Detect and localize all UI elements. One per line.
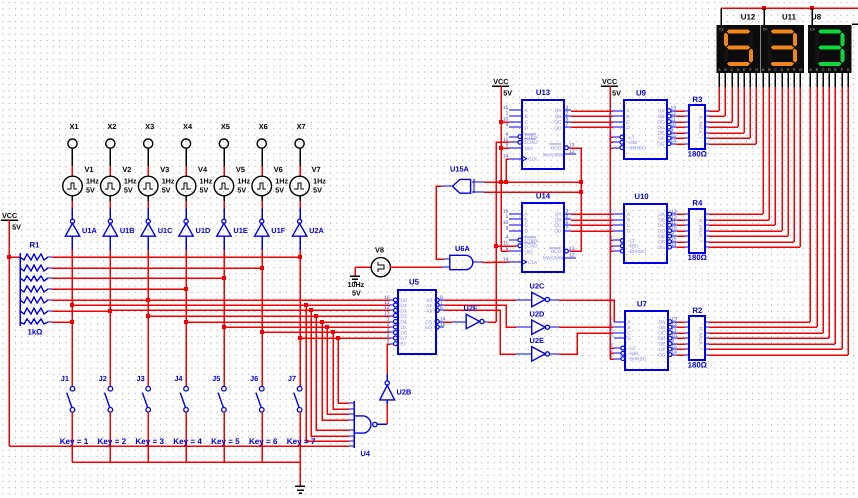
indicator X1 [68, 139, 77, 148]
svg-text:E: E [834, 68, 837, 72]
wire [147, 201, 149, 208]
wire U5 GS to U2F [444, 321, 466, 323]
wire U8 display pins down [810, 73, 848, 355]
svg-text:U2D: U2D [530, 309, 545, 318]
wire [185, 201, 187, 208]
label X1 [69, 122, 78, 131]
label R1 value 1k&#937; [28, 328, 43, 337]
wire U13 outputs to U9 inputs [571, 111, 613, 127]
svg-text:QA: QA [555, 108, 563, 114]
wire [71, 412, 73, 462]
svg-text:OA: OA [658, 109, 666, 115]
svg-text:C: C [774, 68, 777, 72]
svg-text:CLK: CLK [528, 157, 538, 163]
ic U10 body [624, 204, 667, 263]
svg-text:OG: OG [658, 245, 666, 251]
label Key5 [211, 437, 240, 446]
wire [147, 412, 149, 462]
svg-text:5V: 5V [275, 186, 284, 195]
wire VCC rail U13 [499, 86, 509, 251]
wire resistor pack to U8 [709, 322, 848, 355]
svg-text:V5: V5 [236, 165, 245, 174]
wire [223, 208, 225, 219]
svg-text:7: 7 [566, 122, 569, 128]
wire column down to switch [299, 250, 301, 386]
svg-text:U1C: U1C [158, 226, 173, 235]
svg-text:R4: R4 [692, 199, 703, 208]
label U1A [82, 226, 97, 235]
ic U5 left pins [384, 295, 407, 348]
wire branch down to U4 input [336, 336, 349, 403]
wire R1 row 7 to column 1 [52, 321, 72, 323]
wire [109, 208, 111, 219]
svg-text:~BI/RBO: ~BI/RBO [627, 146, 646, 152]
wire [261, 236, 263, 250]
svg-text:~BI/RBO: ~BI/RBO [627, 249, 646, 255]
wire bus line D7 to U5 [298, 336, 390, 340]
label X7 [297, 122, 306, 131]
svg-text:OA: OA [658, 320, 666, 326]
label V4 [198, 165, 208, 174]
svg-text:OE: OE [658, 342, 665, 348]
inverter U2B [380, 381, 395, 400]
svg-text:Key = 6: Key = 6 [249, 437, 278, 446]
wire R1 row 4 to column 4 [52, 288, 186, 290]
wire branch down to U4 input [325, 325, 349, 414]
svg-text:C: C [525, 223, 529, 229]
wire [261, 166, 263, 176]
svg-text:X6: X6 [259, 122, 268, 131]
svg-text:~LT: ~LT [627, 346, 635, 352]
buffer U1D [179, 219, 193, 236]
svg-text:1Hz: 1Hz [313, 177, 326, 186]
wire switch ground bus [72, 461, 300, 463]
label R2 value [688, 361, 707, 370]
svg-text:A: A [718, 68, 721, 72]
wire [223, 148, 225, 166]
svg-text:X7: X7 [297, 122, 306, 131]
ground (switch bus) [295, 486, 305, 493]
wire U15A input 2 line [484, 190, 583, 194]
wire R1 row 6 to column 2 [52, 310, 110, 312]
svg-text:~RBI: ~RBI [627, 244, 638, 250]
indicator X2 [106, 139, 115, 148]
label V2 [122, 165, 131, 174]
wire [223, 166, 225, 176]
svg-text:U5: U5 [409, 278, 420, 287]
svg-text:D6: D6 [401, 330, 407, 336]
ic U7 right pins [658, 316, 677, 358]
label X2 [107, 122, 116, 131]
svg-text:U11: U11 [782, 13, 797, 22]
svg-text:QA: QA [555, 212, 563, 218]
label Key7 [287, 437, 316, 446]
wire [223, 412, 225, 462]
svg-text:U2C: U2C [530, 282, 545, 291]
svg-text:~RBI: ~RBI [627, 140, 638, 146]
svg-text:D4: D4 [401, 319, 407, 325]
wire R1 row 5 to column 3 [52, 299, 148, 301]
wire [261, 148, 263, 166]
svg-text:U2E: U2E [530, 336, 544, 345]
wire bus line D2 to U5 [110, 309, 390, 311]
label J4 [174, 374, 183, 383]
display U8 [808, 25, 852, 73]
svg-text:OC: OC [658, 331, 666, 337]
svg-text:Key = 1: Key = 1 [60, 437, 89, 446]
label X5 [221, 122, 230, 131]
wire VCC rail U9/U10/U7 [609, 86, 611, 359]
svg-text:D7: D7 [401, 336, 407, 342]
label V6 volts [275, 186, 284, 195]
wire [185, 208, 187, 219]
svg-text:A: A [809, 68, 812, 72]
svg-text:U15A: U15A [450, 165, 470, 174]
wire [261, 196, 263, 201]
label U2B [397, 388, 412, 397]
svg-text:VCC: VCC [602, 77, 617, 86]
wire bus line D4 to U5 [184, 320, 390, 324]
svg-text:OE: OE [658, 131, 665, 137]
svg-text:RCO: RCO [551, 146, 562, 152]
wire U9 outputs to resistor pack [676, 111, 709, 144]
xor gate U15A [453, 179, 485, 193]
wire [261, 208, 263, 219]
svg-text:D: D [781, 68, 784, 72]
svg-text:R1: R1 [30, 241, 41, 250]
svg-text:EI: EI [401, 342, 406, 348]
switch J6 [256, 386, 264, 412]
wire [355, 266, 372, 268]
svg-text:V3: V3 [160, 165, 169, 174]
svg-text:OC: OC [658, 223, 666, 229]
wire [223, 201, 225, 208]
svg-text:7: 7 [566, 226, 569, 232]
svg-text:OC: OC [657, 120, 665, 126]
svg-text:C: C [627, 120, 631, 126]
svg-text:14: 14 [671, 138, 677, 144]
clock source V2 [101, 176, 121, 196]
svg-text:U7: U7 [637, 300, 647, 309]
wire [109, 236, 111, 250]
label V6 [274, 165, 283, 174]
svg-text:6: 6 [440, 305, 443, 311]
ic U9 left pins [609, 105, 646, 151]
label U8 [811, 13, 822, 22]
label V3 freq [162, 177, 175, 186]
svg-text:CLK: CLK [528, 260, 538, 266]
svg-text:1Hz: 1Hz [200, 177, 213, 186]
svg-text:U/D: U/D [525, 249, 534, 255]
wire [147, 236, 149, 250]
svg-text:C: C [525, 120, 529, 126]
wire VCC to U7 lamp-test pins [610, 348, 614, 359]
svg-text:OD: OD [657, 125, 665, 131]
indicator X3 [144, 139, 153, 148]
svg-text:C: C [627, 331, 631, 337]
svg-text:OE: OE [658, 234, 665, 240]
svg-text:5V: 5V [612, 89, 621, 98]
svg-text:1Hz: 1Hz [124, 177, 137, 186]
ic U14 left pins [503, 208, 538, 266]
wire U12 display pins down [719, 73, 756, 144]
label U10 [634, 192, 649, 201]
label V6 freq [275, 177, 288, 186]
wire [185, 148, 187, 166]
indicator X7 [295, 139, 304, 148]
label V4 freq [200, 177, 213, 186]
inverter U2D [532, 320, 550, 334]
wire [147, 196, 149, 201]
ic U10 right pins [658, 209, 677, 251]
wire [147, 148, 149, 166]
wire U2E out to U7 C [550, 333, 625, 354]
svg-text:OG: OG [658, 353, 666, 359]
label J1 [61, 374, 69, 383]
wire U15A input 1 line [484, 180, 583, 184]
clock source V4 [176, 176, 196, 196]
wire [354, 267, 356, 276]
switch J7 [294, 386, 302, 412]
wire display CK rail [721, 6, 858, 10]
wire branch down to U4 input [304, 303, 349, 441]
svg-text:J6: J6 [250, 374, 258, 383]
wire [261, 201, 263, 208]
svg-text:V8: V8 [375, 246, 384, 255]
svg-text:V6: V6 [274, 165, 283, 174]
node R1 row 5 junction [146, 298, 150, 302]
svg-text:OF: OF [659, 347, 666, 353]
svg-text:D: D [627, 336, 631, 342]
wire top right tick [852, 23, 858, 25]
svg-text:Key = 3: Key = 3 [135, 437, 164, 446]
svg-text:5V: 5V [313, 186, 322, 195]
resistor pack R1 [20, 253, 52, 326]
wire [71, 201, 73, 208]
svg-text:B: B [525, 217, 528, 223]
wire U4 to U2B [386, 404, 388, 424]
wire [71, 196, 73, 201]
ic U10 left pins [609, 209, 646, 255]
label U1B [120, 226, 135, 235]
wire [261, 412, 263, 462]
svg-text:OF: OF [658, 240, 665, 246]
label R2 [692, 306, 703, 315]
wire U4 output [377, 423, 387, 425]
svg-text:VCC: VCC [493, 77, 508, 86]
svg-text:X2: X2 [107, 122, 116, 131]
svg-text:180Ω: 180Ω [688, 253, 707, 262]
svg-text:J2: J2 [99, 374, 107, 383]
label Key1 [60, 437, 89, 446]
label Key6 [249, 437, 278, 446]
svg-text:QD: QD [554, 125, 562, 131]
wire [386, 400, 388, 404]
label U11 [782, 13, 797, 22]
svg-text:QC: QC [554, 223, 562, 229]
label U6A [455, 244, 470, 253]
wire U8 CK stub [811, 8, 813, 25]
wire [109, 196, 111, 201]
label U13 [536, 88, 551, 97]
label U9 [636, 89, 647, 98]
wire U15A output [436, 186, 452, 259]
svg-text:B: B [816, 68, 819, 72]
node R1 row 4 junction [184, 287, 188, 291]
label U15A [450, 165, 470, 174]
svg-text:U14: U14 [536, 191, 551, 200]
buffer U1C [141, 219, 155, 236]
label V8 volts [352, 289, 361, 298]
clock source V5 [214, 176, 234, 196]
svg-text:D2: D2 [401, 308, 407, 314]
wire branch down to U4 input [309, 308, 349, 436]
wire resistor pack to U11 [709, 214, 800, 247]
label J6 [250, 374, 258, 383]
svg-text:X3: X3 [145, 122, 154, 131]
svg-text:X1: X1 [69, 122, 78, 131]
wire column down to switch [71, 250, 73, 386]
label U1F [271, 226, 285, 235]
resistor pack R3 body [689, 105, 705, 149]
svg-text:5V: 5V [86, 186, 95, 195]
label X3 [145, 122, 154, 131]
svg-text:A: A [762, 68, 765, 72]
wire VCC to U10 lamp-test pins [610, 240, 613, 251]
wire column down to switch [261, 250, 263, 386]
svg-text:QB: QB [555, 217, 562, 223]
svg-text:OF: OF [658, 136, 665, 142]
svg-text:D: D [627, 229, 631, 235]
svg-text:Key = 2: Key = 2 [98, 437, 127, 446]
wire bus line D1 to U5 [70, 303, 390, 307]
svg-text:R_PACK_7: R_PACK_7 [698, 327, 703, 351]
wire [71, 236, 73, 250]
svg-text:U12: U12 [741, 13, 756, 22]
node R1 row 6 junction [108, 309, 112, 313]
svg-text:~RBI: ~RBI [627, 351, 638, 357]
label U5 [409, 278, 420, 287]
svg-text:V7: V7 [312, 165, 321, 174]
switch J4 [180, 386, 188, 412]
wire column down to switch [223, 250, 225, 386]
switch J3 [142, 386, 150, 412]
wire [109, 412, 111, 462]
wire column down to switch [147, 250, 149, 386]
svg-text:5V: 5V [162, 186, 171, 195]
label V5 volts [237, 186, 246, 195]
svg-text:5V: 5V [352, 289, 361, 298]
svg-text:A1: A1 [426, 303, 432, 309]
label R3 [692, 95, 703, 104]
svg-text:B: B [525, 114, 528, 120]
svg-text:J3: J3 [136, 374, 144, 383]
label X6 [259, 122, 268, 131]
label J7 [288, 374, 296, 383]
label U7 [637, 300, 647, 309]
svg-text:E: E [787, 68, 790, 72]
svg-text:D: D [627, 125, 631, 131]
svg-text:B: B [627, 218, 630, 224]
svg-text:U4: U4 [361, 449, 371, 458]
svg-text:OB: OB [658, 114, 665, 120]
svg-text:U2F: U2F [464, 304, 478, 313]
label X4 [183, 122, 193, 131]
clock source V3 [138, 176, 158, 196]
svg-text:CK: CK [719, 28, 725, 32]
svg-text:U10: U10 [634, 192, 649, 201]
svg-text:J1: J1 [61, 374, 69, 383]
indicator X6 [257, 139, 266, 148]
label U1E [233, 226, 247, 235]
svg-text:EO: EO [425, 325, 432, 331]
wire V8 to U6A [390, 266, 450, 268]
wire R1 row 1 to column 7 [52, 256, 300, 258]
svg-text:180Ω: 180Ω [688, 150, 707, 159]
svg-text:QD: QD [554, 229, 562, 235]
svg-text:U6A: U6A [455, 244, 470, 253]
svg-text:Key = 7: Key = 7 [287, 437, 316, 446]
wire VCC rail to R1 bus [9, 256, 21, 258]
indicator X4 [181, 139, 190, 148]
svg-text:12: 12 [569, 253, 575, 259]
label V5 freq [237, 177, 250, 186]
label V1 volts [86, 186, 95, 195]
label U2E [530, 336, 544, 345]
svg-text:R2: R2 [692, 306, 703, 315]
svg-text:G: G [847, 68, 850, 72]
nand gate U4 [349, 401, 377, 448]
label V7 freq [313, 177, 326, 186]
label R3 value [688, 150, 707, 159]
svg-text:14: 14 [671, 242, 677, 248]
svg-text:B: B [627, 114, 630, 120]
wire [185, 236, 187, 250]
resistor pack R2 body [689, 316, 705, 360]
switch J5 [218, 386, 226, 412]
indicator X5 [219, 139, 228, 148]
wire U6A output to U14 CLK [473, 261, 509, 264]
wire branch down to U4 input [331, 330, 349, 409]
ic U7 left pins [610, 316, 647, 362]
label U1D [196, 226, 211, 235]
svg-text:R3: R3 [692, 95, 703, 104]
wire R1 row 3 to column 5 [52, 277, 224, 279]
wire U7 outputs to resistor pack [677, 322, 709, 355]
svg-text:5V: 5V [124, 186, 133, 195]
wire [223, 196, 225, 201]
svg-text:J5: J5 [212, 374, 220, 383]
svg-text:9: 9 [506, 226, 509, 232]
wire RCO tie [570, 148, 581, 251]
wire U2F out up [484, 321, 496, 323]
switch J1 [67, 386, 75, 412]
svg-text:U9: U9 [636, 89, 647, 98]
svg-text:V1: V1 [85, 165, 94, 174]
wire [109, 201, 111, 208]
inverter U2E [532, 347, 550, 361]
svg-text:J4: J4 [174, 374, 183, 383]
svg-text:1Hz: 1Hz [162, 177, 175, 186]
label V2 freq [124, 177, 137, 186]
label V8 freq [348, 280, 365, 289]
wire [147, 166, 149, 176]
svg-text:B: B [627, 325, 630, 331]
label U2D [530, 309, 545, 318]
resistor pack R4 body [689, 209, 705, 253]
inverter U2F [466, 314, 484, 328]
svg-text:D: D [828, 68, 831, 72]
